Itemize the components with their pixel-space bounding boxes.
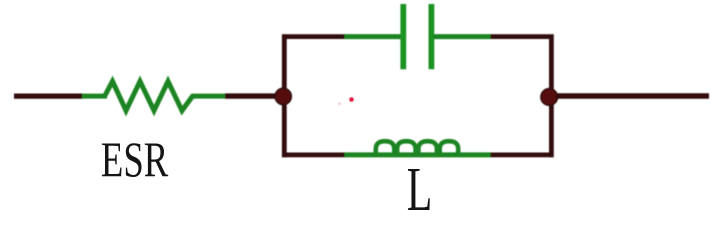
svg-text:ESR: ESR (101, 133, 169, 188)
inductor L coil hump 3 (418, 141, 437, 156)
inductor L coil hump 2 (397, 141, 416, 156)
wire right lead (556, 93, 709, 98)
wire bottom left dark (282, 152, 346, 157)
wire top right dark (491, 34, 554, 39)
capacitor left plate (400, 4, 406, 69)
wire left lead (14, 93, 84, 98)
node junction right (541, 89, 558, 106)
resistor ESR zigzag (105, 81, 193, 110)
wire capacitor right lead (434, 34, 492, 39)
wire resistor left lead (82, 94, 107, 99)
wire inductor lead baseline (345, 152, 492, 157)
capacitor right plate (428, 4, 434, 69)
pink speck (338, 103, 340, 105)
wire resistor right lead (192, 94, 227, 99)
svg-text:L: L (407, 156, 433, 214)
node junction left (275, 88, 291, 104)
probe red dot (349, 97, 354, 102)
inductor L coil hump 4 (440, 141, 459, 156)
wire right branch vertical (549, 34, 554, 157)
wire capacitor left lead (345, 34, 402, 39)
inductor L coil hump 1 (376, 141, 395, 156)
wire bottom right dark (491, 152, 554, 157)
wire left branch vertical (282, 34, 287, 157)
wire to left node (225, 93, 279, 98)
wire top left dark (282, 34, 346, 39)
